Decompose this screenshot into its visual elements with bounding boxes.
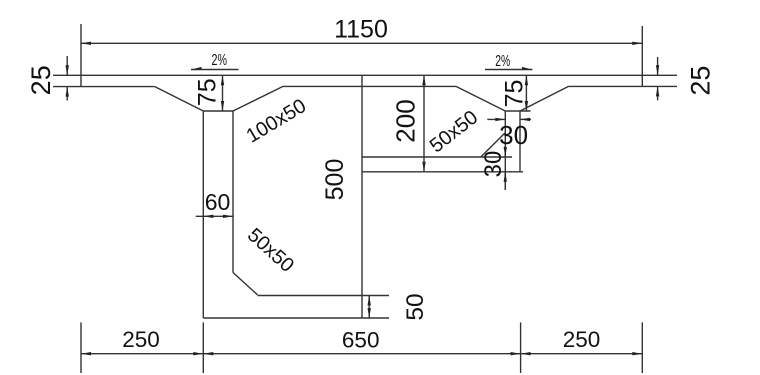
svg-text:75: 75 bbox=[500, 80, 528, 108]
svg-text:200: 200 bbox=[391, 99, 421, 142]
svg-text:250: 250 bbox=[563, 327, 601, 352]
svg-text:1150: 1150 bbox=[334, 16, 388, 44]
svg-text:250: 250 bbox=[122, 327, 160, 352]
svg-text:75: 75 bbox=[194, 78, 222, 106]
svg-text:30: 30 bbox=[499, 120, 528, 150]
svg-text:100x50: 100x50 bbox=[243, 95, 311, 148]
svg-text:650: 650 bbox=[342, 328, 380, 353]
svg-text:2%: 2% bbox=[495, 53, 510, 70]
svg-text:25: 25 bbox=[685, 66, 715, 96]
svg-text:25: 25 bbox=[26, 65, 56, 95]
svg-text:2%: 2% bbox=[212, 52, 228, 69]
svg-text:30: 30 bbox=[480, 151, 507, 178]
svg-text:500: 500 bbox=[321, 159, 349, 201]
svg-text:60: 60 bbox=[205, 189, 231, 215]
svg-text:50x50: 50x50 bbox=[426, 106, 482, 157]
svg-text:50x50: 50x50 bbox=[243, 224, 298, 277]
svg-text:50: 50 bbox=[402, 293, 429, 320]
